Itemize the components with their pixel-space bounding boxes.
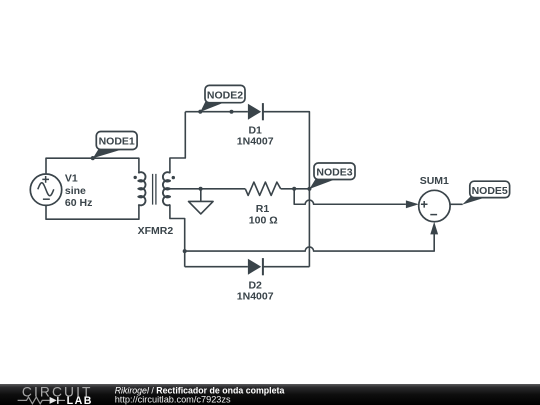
wire SUM1 output to NODE5 bbox=[450, 203, 463, 205]
label R1 value bbox=[249, 203, 278, 226]
svg-text:1N4007: 1N4007 bbox=[237, 291, 274, 303]
resistor R1 zigzag bbox=[245, 182, 280, 195]
arrowhead into SUM1 plus bbox=[406, 200, 419, 208]
svg-text:1N4007: 1N4007 bbox=[237, 136, 274, 148]
transformer XFMR2 core lines bbox=[153, 174, 156, 205]
wire secondary bottom lead elbow bbox=[170, 205, 185, 267]
op-amp SUM1 summer circle bbox=[419, 190, 450, 221]
voltage source V1 plus sign bbox=[42, 176, 49, 183]
svg-text:sine: sine bbox=[65, 185, 86, 197]
transformer XFMR2 primary coil bbox=[138, 172, 145, 205]
wire V1 bottom loop bbox=[46, 205, 139, 220]
wire D1 anode rail bbox=[185, 111, 248, 113]
callout NODE5 bbox=[462, 181, 509, 204]
svg-text:SUM1: SUM1 bbox=[420, 175, 449, 187]
ground symbol triangle bbox=[189, 201, 214, 214]
callout NODE2 bbox=[200, 85, 245, 112]
SUM1 minus sign bbox=[430, 214, 437, 216]
voltage source V1 circle bbox=[30, 174, 61, 205]
diode D2 cathode bar bbox=[262, 258, 264, 275]
phase dot primary bbox=[134, 176, 137, 179]
wire NODE3 jog to SUM1 plus input (with hop) bbox=[294, 189, 406, 204]
ground symbol stem bbox=[200, 189, 202, 202]
SUM1 plus sign bbox=[421, 201, 428, 208]
svg-text:NODE3: NODE3 bbox=[316, 167, 352, 179]
svg-text:100 Ω: 100 Ω bbox=[249, 214, 278, 226]
svg-text:R1: R1 bbox=[256, 203, 270, 215]
callout NODE1 bbox=[93, 132, 137, 159]
phase dot secondary bbox=[172, 176, 175, 179]
label V1 value bbox=[65, 173, 92, 209]
svg-text:60 Hz: 60 Hz bbox=[65, 197, 92, 209]
label D1 bbox=[237, 125, 274, 148]
label D2 bbox=[237, 280, 274, 303]
svg-text:http://circuitlab.com/c7923zs: http://circuitlab.com/c7923zs bbox=[115, 395, 231, 405]
voltage source V1 minus sign bbox=[43, 198, 50, 200]
wire center tap to R1 bbox=[170, 188, 245, 190]
junction dot ground tap bbox=[199, 187, 203, 191]
wire D2 anode bbox=[185, 266, 248, 268]
arrowhead into SUM1 minus bbox=[430, 222, 438, 235]
junction dot NODE2 bbox=[198, 110, 202, 114]
junction dot NODE1 bbox=[91, 156, 95, 160]
wire secondary top lead to D1 rail bbox=[170, 112, 185, 174]
diode D1 triangle bbox=[248, 104, 261, 120]
wire D2 cathode bbox=[263, 266, 310, 268]
svg-text:NODE5: NODE5 bbox=[472, 185, 508, 197]
callout NODE3 bbox=[309, 163, 355, 189]
junction dot D1 anode wire end bbox=[230, 110, 234, 114]
svg-text:XFMR2: XFMR2 bbox=[138, 225, 174, 237]
wire D1 cathode to NODE3 vertical bbox=[263, 112, 310, 267]
svg-text:NODE1: NODE1 bbox=[99, 136, 135, 148]
transformer XFMR2 secondary coil bbox=[163, 172, 170, 205]
wire R1 to NODE3 bbox=[281, 188, 310, 190]
logo diode bar bbox=[57, 397, 59, 404]
diode D2 triangle bbox=[248, 259, 261, 275]
logo resistor-diode icon bbox=[18, 397, 65, 404]
junction dot SUM branch bbox=[183, 249, 187, 253]
wire branch to SUM1 minus input (with hop) bbox=[185, 234, 435, 251]
wire V1 top lead to NODE1 rail bbox=[46, 158, 139, 174]
logo diode triangle bbox=[50, 397, 57, 404]
diode D1 cathode bar bbox=[262, 103, 264, 120]
svg-text:V1: V1 bbox=[65, 173, 78, 185]
junction dot NODE3 bbox=[307, 187, 311, 191]
svg-text:LAB: LAB bbox=[67, 395, 93, 405]
svg-text:NODE2: NODE2 bbox=[207, 89, 243, 101]
voltage source V1 sine glyph bbox=[38, 183, 54, 196]
junction dot jog branch bbox=[292, 187, 296, 191]
